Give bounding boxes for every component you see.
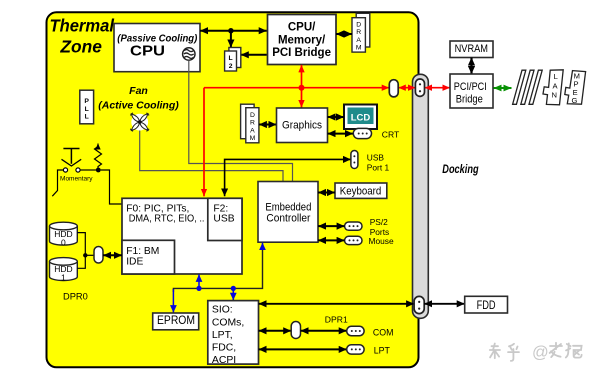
thermal zone boundary xyxy=(47,12,419,367)
wire bridge to DRAM xyxy=(336,33,352,35)
svg-text:FDD: FDD xyxy=(477,300,496,312)
LPT connector xyxy=(347,345,364,354)
wire HDD0 to junction xyxy=(77,233,85,256)
svg-text:Fan: Fan xyxy=(129,85,148,97)
svg-text:DPR1: DPR1 xyxy=(325,314,348,324)
svg-text:USB: USB xyxy=(213,214,234,225)
svg-text:Thermal: Thermal xyxy=(49,16,115,36)
USB port 1 connector xyxy=(351,151,358,169)
resistor (thermistor) xyxy=(95,144,102,169)
svg-text:CPU: CPU xyxy=(130,43,165,59)
svg-text:Mouse: Mouse xyxy=(369,236,394,246)
docking pill bottom xyxy=(414,296,424,313)
wire Graphics to CRT xyxy=(328,133,354,135)
svg-text:1: 1 xyxy=(61,273,66,283)
svg-text:L: L xyxy=(554,72,558,81)
CPU thermal sensor icon xyxy=(183,48,195,60)
DPR0 connector pill xyxy=(94,247,103,264)
svg-text:N: N xyxy=(551,91,556,100)
green docking PCI bus arrow xyxy=(494,87,512,89)
svg-text:CRT: CRT xyxy=(382,130,400,140)
momentary switch xyxy=(52,149,96,197)
wire SIO to docking (FDD) xyxy=(259,303,415,305)
node bus junction F0 xyxy=(196,286,201,291)
svg-text:D: D xyxy=(356,22,361,29)
svg-text:Graphics: Graphics xyxy=(282,120,322,132)
F2 USB function box xyxy=(208,198,242,240)
wire HDD1 to junction xyxy=(77,255,85,268)
docking pill top xyxy=(415,79,424,96)
svg-text:Memory/: Memory/ xyxy=(278,34,326,46)
svg-text:Port 1: Port 1 xyxy=(367,162,390,172)
CRT connector xyxy=(353,128,371,138)
EPROM box xyxy=(153,313,199,330)
blue arrow bus to F0 xyxy=(198,274,200,288)
svg-text:LPT,: LPT, xyxy=(212,330,233,341)
svg-text:0: 0 xyxy=(61,237,66,247)
SIO box xyxy=(208,301,259,366)
F1 BM IDE function box xyxy=(122,240,175,274)
svg-text:M: M xyxy=(356,45,362,52)
wire fan to Embedded Controller xyxy=(140,131,283,182)
FDD box xyxy=(465,296,508,313)
node HDD junction xyxy=(83,253,87,257)
svg-text:COM: COM xyxy=(373,327,394,337)
svg-text:Docking: Docking xyxy=(442,163,478,176)
wire Graphics to LCD xyxy=(328,116,345,118)
COM connector xyxy=(347,326,364,335)
PCI slots xyxy=(513,70,543,104)
wire junction to L2 xyxy=(230,31,232,48)
svg-text:LCD: LCD xyxy=(351,113,371,124)
PCI/PCI Bridge box xyxy=(450,74,493,108)
DRAM (system) box xyxy=(352,13,370,52)
red bus bridge to Graphics xyxy=(301,65,303,108)
svg-text:G: G xyxy=(571,96,577,105)
svg-text:A: A xyxy=(356,37,361,44)
svg-text:L: L xyxy=(85,114,89,121)
svg-text:A: A xyxy=(250,127,255,134)
wire junction to DPR0 pill xyxy=(85,254,94,256)
LCD panel xyxy=(344,105,377,130)
svg-text:R: R xyxy=(250,120,255,127)
Keyboard box xyxy=(335,183,387,198)
PLL box xyxy=(80,90,94,124)
wire bridge to L2 xyxy=(241,54,267,56)
svg-text:(Active Cooling): (Active Cooling) xyxy=(98,100,179,112)
svg-text:Keyboard: Keyboard xyxy=(340,186,382,198)
wire NVRAM to PCI/PCI bridge xyxy=(470,58,472,75)
svg-text:L: L xyxy=(85,106,89,113)
HDD 1 drive xyxy=(50,258,78,283)
wire CPU sensor to Embedded Controller xyxy=(189,60,293,181)
svg-text:COMs,: COMs, xyxy=(212,317,244,328)
svg-text:F1: BM: F1: BM xyxy=(126,246,159,257)
Graphics box xyxy=(277,108,328,143)
svg-text:D: D xyxy=(250,112,255,119)
red bus to docking pill xyxy=(398,87,415,89)
blue arrow bus to SIO xyxy=(232,288,234,300)
wire switch to F0 xyxy=(101,170,122,204)
Mouse connector xyxy=(345,236,362,244)
svg-text:Zone: Zone xyxy=(59,36,102,56)
wire F2 USB to USB port 1 xyxy=(225,159,351,196)
LAN card xyxy=(543,70,563,105)
svg-text:FDC,: FDC, xyxy=(212,343,236,354)
connector pill on red bus xyxy=(389,80,398,97)
NVRAM box xyxy=(450,41,493,58)
node bus junction SIO xyxy=(231,286,236,291)
svg-text:L: L xyxy=(229,55,233,62)
red node junction xyxy=(299,85,305,91)
svg-text:2: 2 xyxy=(229,63,233,70)
L2 cache box xyxy=(225,48,241,72)
svg-text:Bridge: Bridge xyxy=(456,94,483,106)
ISA/X bus dark line xyxy=(173,247,262,292)
svg-text:R: R xyxy=(356,29,361,36)
wire DPR0 to F1 xyxy=(103,254,122,256)
fan icon xyxy=(130,113,149,132)
svg-text:@: @ xyxy=(532,343,549,361)
F0/F1/F2 south bridge box xyxy=(122,198,242,274)
PS/2 connector xyxy=(345,222,362,230)
CPU box xyxy=(114,24,200,72)
svg-text:IDE: IDE xyxy=(126,257,143,268)
DRAM (graphics) box xyxy=(241,104,259,143)
watermark zhihu xyxy=(489,342,582,361)
wire SIO to LPT xyxy=(259,348,347,350)
svg-text:CPU/: CPU/ xyxy=(288,21,316,33)
docking connector bar xyxy=(413,74,429,318)
DPR1 connector pill xyxy=(291,322,300,339)
HDD 0 drive xyxy=(50,222,78,247)
blue arrow bus to EC xyxy=(262,243,264,250)
red bus docking to PCI/PCI bridge xyxy=(425,87,450,89)
red PCI bus vertical to F0 xyxy=(203,88,205,197)
svg-text:USB: USB xyxy=(367,153,385,163)
wire EC to Mouse xyxy=(318,239,345,241)
svg-text:PCI Bridge: PCI Bridge xyxy=(272,47,331,59)
wire EC to Keyboard xyxy=(318,192,335,194)
svg-text:NVRAM: NVRAM xyxy=(455,43,488,55)
svg-text:DPR0: DPR0 xyxy=(63,291,88,301)
wire SIO to DPR1 xyxy=(259,330,292,332)
svg-text:LPT: LPT xyxy=(374,345,391,355)
svg-text:ACPI: ACPI xyxy=(212,355,236,366)
wire DPR1 to COM xyxy=(301,330,347,332)
svg-text:PS/2: PS/2 xyxy=(370,217,388,227)
wire docking to FDD xyxy=(424,303,465,305)
wire EC to PS/2 xyxy=(318,225,345,227)
svg-text:DMA, RTC, EIO, ..: DMA, RTC, EIO, .. xyxy=(129,214,205,225)
red PCI bus horizontal xyxy=(204,87,389,89)
blue arrow bus to EPROM xyxy=(172,289,174,313)
svg-text:EPROM: EPROM xyxy=(157,315,195,327)
svg-text:M: M xyxy=(250,135,256,142)
svg-text:PCI/PCI: PCI/PCI xyxy=(454,81,487,93)
CPU/Memory/PCI Bridge box U-north xyxy=(268,15,337,65)
svg-text:P: P xyxy=(84,98,89,105)
wire DRAM to Graphics xyxy=(259,124,277,126)
MPEG card xyxy=(565,71,586,106)
node junction on CPU bus xyxy=(228,28,233,33)
Embedded Controller box xyxy=(258,182,318,243)
node junction xyxy=(96,168,101,173)
svg-text:SIO:: SIO: xyxy=(212,305,233,316)
svg-text:Controller: Controller xyxy=(266,213,310,225)
svg-text:Momentary: Momentary xyxy=(60,176,93,183)
wire CPU to CPU/Memory bridge xyxy=(200,30,267,32)
